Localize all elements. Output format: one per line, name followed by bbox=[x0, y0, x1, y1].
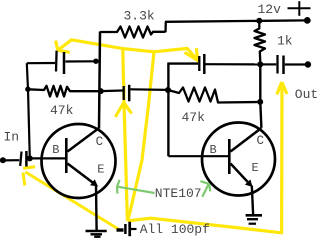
supply + symbol bbox=[288, 1, 311, 16]
capacitor C3 plates bbox=[123, 86, 125, 100]
capacitor C6 plates bbox=[124, 224, 127, 234]
svg-text:B: B bbox=[52, 143, 59, 157]
junction dot C1 right node bbox=[93, 59, 98, 64]
transistor Q1 collector diagonal bbox=[68, 128, 100, 152]
transistor Q2 emitter diagonal with arrow bbox=[231, 164, 249, 183]
transistor Q2 base bar bbox=[228, 139, 231, 174]
svg-text:3.3k: 3.3k bbox=[124, 9, 155, 24]
wire: main vertical stage-1 collector rail bbox=[99, 32, 100, 129]
resistor R2 1k (vertical) bbox=[255, 21, 266, 64]
capacitor C2 plates bbox=[20, 152, 21, 167]
junction dot C1/47k left node bbox=[25, 87, 30, 92]
capacitor C5 plates bbox=[276, 55, 278, 74]
yellow annotation arrow to stage-2 capacitor bbox=[123, 48, 199, 61]
transistor Q1 base bar bbox=[65, 138, 68, 173]
transistor Q2 emitter vertical bbox=[252, 186, 253, 215]
supply terminal dot bbox=[304, 17, 311, 24]
yellow vertical line through coupling capacitor with up arrowhead bbox=[115, 49, 131, 221]
junction dot 1k/output node bbox=[257, 61, 263, 67]
transistor Q1 circle bbox=[42, 124, 116, 198]
capacitor C4 right lead bbox=[206, 63, 259, 65]
capacitor C3 right lead bbox=[131, 88, 168, 91]
ground symbol stage-2 bbox=[246, 215, 262, 223]
svg-text:All 100pf: All 100pf bbox=[140, 222, 210, 237]
capacitor C4 stage-2 feedback: left lead bbox=[167, 62, 198, 64]
transistor Q1 emitter diagonal with arrow bbox=[68, 164, 95, 184]
capacitor C1 stage-1 feedback: left lead bbox=[27, 62, 55, 64]
svg-text:E: E bbox=[252, 161, 259, 175]
yellow annotation arrow to stage-1 capacitor bbox=[56, 40, 123, 53]
yellow bottom line and up arrow to Out terminal bbox=[128, 82, 287, 233]
output terminal dot bbox=[305, 61, 311, 67]
junction dot stage-2 left node bbox=[165, 87, 171, 93]
capacitor C2 input: terminal lead bbox=[3, 159, 19, 161]
junction dot input/base node bbox=[27, 155, 33, 161]
capacitor C6 bottom (All 100pf): left lead bbox=[117, 228, 124, 231]
svg-text:C: C bbox=[257, 134, 265, 148]
svg-text:In: In bbox=[4, 130, 20, 145]
svg-text:E: E bbox=[97, 163, 104, 177]
capacitor C2 right lead to base node bbox=[28, 157, 32, 159]
svg-text:Out: Out bbox=[295, 87, 318, 102]
transistor Q2 collector diagonal bbox=[231, 128, 262, 152]
resistor R1 3.3k bbox=[100, 27, 165, 38]
svg-text:1k: 1k bbox=[277, 34, 293, 49]
junction dot 47k-2/collector node bbox=[257, 99, 263, 105]
yellow annotation arrow to input capacitor bbox=[23, 167, 119, 230]
capacitor C5 output: left lead bbox=[261, 63, 276, 65]
transistor Q2 circle bbox=[202, 123, 275, 196]
green arrow from NTE107 to Q2 bbox=[200, 181, 210, 197]
capacitor C6 right lead bbox=[131, 228, 137, 230]
svg-text:47k: 47k bbox=[182, 110, 206, 125]
resistor R3 47k stage-1 bbox=[28, 86, 100, 97]
transistor Q1 base lead bbox=[30, 157, 65, 159]
ground symbol stage-1 bbox=[86, 231, 107, 237]
wire: left vertical from C1 to 47k to input node bbox=[27, 63, 30, 158]
svg-text:B: B bbox=[210, 143, 217, 157]
yellow descender line from stage-2 arrow to bottom capacitor bbox=[128, 52, 154, 221]
capacitor C1 right lead bbox=[66, 60, 96, 62]
capacitor C1 plates bbox=[55, 51, 58, 72]
wire: stage-2 collector vertical bbox=[260, 64, 261, 127]
green arrow from NTE107 to Q1 bbox=[117, 180, 155, 194]
wire from R1 to supply rail bbox=[166, 20, 307, 32]
transistor Q2 base lead bbox=[169, 155, 229, 157]
junction dot supply rail / 1k bbox=[256, 18, 262, 24]
junction dot input terminal bbox=[0, 157, 6, 163]
resistor R4 47k stage-2 bbox=[168, 88, 260, 103]
wire: stage-2 left vertical bbox=[167, 64, 169, 157]
svg-text:NTE107: NTE107 bbox=[155, 186, 202, 201]
junction dot 47k/C3 node bbox=[98, 88, 104, 94]
transistor Q1 emitter vertical bbox=[95, 185, 98, 230]
svg-text:12v: 12v bbox=[258, 2, 282, 17]
capacitor C5 right lead bbox=[285, 63, 306, 65]
capacitor C3 coupling: left lead bbox=[101, 89, 123, 92]
svg-text:C: C bbox=[96, 135, 104, 149]
svg-text:47k: 47k bbox=[50, 103, 74, 118]
capacitor C4 plates bbox=[198, 56, 200, 71]
